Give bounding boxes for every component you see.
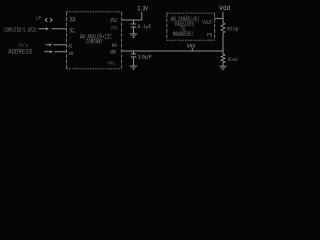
svg-text:Rload: Rload — [228, 56, 238, 63]
wire: stub rail to capacitor C2 — [133, 51, 135, 54]
svg-text:10µF: 10µF — [138, 54, 152, 61]
svg-text:(0V): (0V) — [108, 60, 115, 66]
svg-text:Vcc: Vcc — [111, 17, 118, 24]
svg-text:SCL: SCL — [70, 27, 76, 34]
svg-text:ADDRESS: ADDRESS — [8, 49, 32, 57]
SCL arrow (line + head) — [39, 27, 49, 30]
svg-text:0.1µF: 0.1µF — [138, 23, 152, 30]
wire: 3.3V vertical drop — [141, 12, 143, 20]
svg-text:COMPANY: COMPANY — [86, 39, 103, 46]
svg-text:Vout: Vout — [202, 19, 212, 26]
wire: C1 to ground — [133, 27, 135, 33]
wire: U2 GND stub to rail — [191, 48, 193, 51]
resistor R1 (Rtop) zigzag — [221, 23, 225, 33]
svg-text:P0: P0 — [207, 33, 212, 39]
svg-text:Vdd: Vdd — [219, 5, 230, 12]
ground (under C1) — [130, 34, 138, 38]
wire: R2 to ground — [222, 63, 224, 66]
wire: R1 down to rail — [222, 33, 224, 54]
wire: into A0 pin — [54, 51, 66, 53]
ground (right, under R2) — [219, 66, 227, 69]
svg-text:A1: A1 — [68, 44, 72, 50]
svg-text:(5V): (5V) — [111, 25, 118, 31]
capacitor C2 10uF (plates) — [131, 54, 137, 57]
svg-text:GND: GND — [187, 43, 196, 49]
IC U2 (right box outline, dashed) — [167, 13, 215, 40]
ground (under C2) — [130, 66, 138, 69]
svg-text:3.3V: 3.3V — [137, 5, 148, 12]
wire: SCL into chip — [52, 28, 67, 30]
svg-text:SDA: SDA — [70, 17, 76, 24]
wire: into A1 pin — [53, 44, 66, 46]
wire: ground rail (GND pin to right side) — [122, 50, 223, 52]
svg-text:Rtop: Rtop — [227, 26, 238, 33]
wire: Vcc pin to 3.3V supply — [122, 19, 142, 21]
A0 arrow — [44, 50, 52, 53]
wire: Vout pin to VDD line — [215, 17, 223, 19]
IC U1 (left box outline, dashed) — [67, 12, 122, 69]
wire: C2 to ground — [133, 57, 135, 65]
A1 arrow — [46, 43, 52, 46]
svg-text:µP: µP — [36, 15, 41, 21]
svg-text:MANAGERS!: MANAGERS! — [173, 31, 194, 38]
wire: VDD vertical drop — [222, 12, 224, 23]
svg-text:A0: A0 — [69, 51, 73, 57]
svg-text:COMPUTER'S GPIO: COMPUTER'S GPIO — [4, 27, 37, 35]
resistor R2 (Rload) zigzag — [221, 54, 225, 63]
svg-text:GND: GND — [110, 48, 116, 55]
wire: stub from Vcc wire to capacitor C1 — [133, 20, 135, 24]
SDA bidirectional arrow symbol < > — [45, 18, 52, 22]
capacitor C1 0.1uF (plates) — [131, 24, 137, 27]
